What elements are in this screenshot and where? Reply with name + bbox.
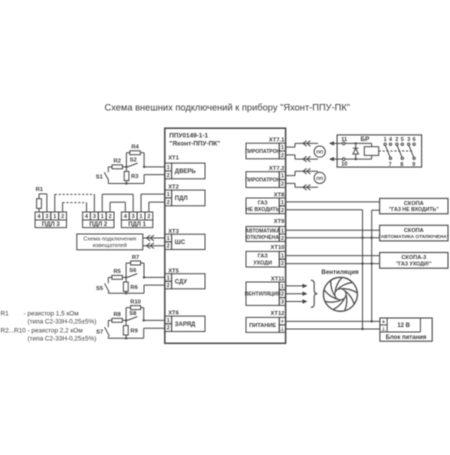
- svg-text:1: 1: [101, 214, 104, 220]
- detector PDL3 ПДЛ 3: [35, 212, 66, 228]
- wire XT3 pin2 connector: [143, 243, 165, 249]
- wire PDL3 cell1 to PDL2 cell3 (dashed): [55, 194, 95, 212]
- svg-text:1: 1: [281, 145, 284, 151]
- resistor R1: [36, 187, 44, 208]
- junction node net-XT5-c: [125, 292, 127, 294]
- svg-text:УХОДИ: УХОДИ: [253, 261, 272, 267]
- svg-text:R5: R5: [113, 269, 121, 275]
- switch S1: [96, 172, 109, 180]
- svg-text:"ГАЗ НЕ ВХОДИТЬ": "ГАЗ НЕ ВХОДИТЬ": [389, 207, 439, 213]
- svg-text:XT12: XT12: [271, 311, 285, 317]
- brace ventilation group: [311, 280, 318, 307]
- svg-text:Схема внешних подключений к пр: Схема внешних подключений к прибору "Яхо…: [105, 102, 351, 112]
- svg-text:XT7.2: XT7.2: [269, 166, 284, 172]
- svg-text:S5: S5: [96, 286, 104, 292]
- svg-text:5: 5: [401, 137, 404, 143]
- relay contact K1.2: [395, 137, 403, 168]
- wire PP1 line2: [286, 155, 318, 162]
- wire PDL2 cell1 to PDL1 cell3: [102, 194, 133, 212]
- svg-text:2: 2: [281, 182, 284, 188]
- wire PDL1 cell1 to XT2 pin1: [141, 194, 165, 212]
- junction node diode-top: [355, 142, 357, 144]
- svg-text:(типа С2-33Н-0,25±5%): (типа С2-33Н-0,25±5%): [28, 335, 97, 342]
- junction node net-XT6-b: [143, 319, 145, 321]
- terminal XT12 ПИТАНИЕ: [246, 311, 286, 333]
- svg-text:2: 2: [167, 244, 170, 250]
- junction node diode-bottom: [355, 158, 357, 160]
- resistor R7: [131, 255, 141, 265]
- svg-text:6: 6: [413, 137, 416, 143]
- wire XT12 minus to PSU: [286, 328, 380, 330]
- squib PP2 ПП: [314, 172, 325, 183]
- svg-text:ПИРОПАТРОН: ПИРОПАТРОН: [245, 178, 281, 184]
- svg-text:R8: R8: [113, 312, 121, 318]
- switch S2: [128, 158, 138, 167]
- terminal XT8 ГАЗ НЕ ВХОДИТЬ: [246, 192, 286, 213]
- svg-text:ОТКЛЮЧЕНА: ОТКЛЮЧЕНА: [246, 235, 279, 241]
- switch S7: [96, 327, 109, 336]
- svg-text:1: 1: [281, 253, 284, 259]
- resistor R5: [112, 269, 123, 279]
- svg-text:S7: S7: [96, 330, 103, 336]
- terminal XT7.2 ПИРОПАТРОН: [245, 166, 286, 188]
- wire XT3 pin1 connector: [143, 235, 165, 241]
- svg-text:R2...R10 - резистор 2,2 кОм: R2...R10 - резистор 2,2 кОм: [1, 328, 83, 335]
- svg-text:1: 1: [167, 275, 170, 281]
- terminal XT7.1 ПИРОПАТРОН: [245, 137, 286, 159]
- svg-text:3: 3: [407, 137, 410, 143]
- wire XT8.2 to bus A: [286, 210, 363, 329]
- wire PP2 line1: [286, 168, 318, 175]
- svg-text:1: 1: [281, 284, 284, 290]
- switch S5: [96, 283, 109, 292]
- svg-text:1: 1: [167, 236, 170, 242]
- detector PDL1 ПДЛ 1: [121, 212, 152, 228]
- svg-text:СКОПА-3: СКОПА-3: [401, 255, 426, 261]
- wire bus B: [372, 210, 380, 321]
- terminal XT2 ПДЛ: [165, 185, 205, 206]
- junction node net-XT6-a: [125, 319, 127, 321]
- wire PP1 line1: [286, 141, 318, 148]
- svg-text:1: 1: [167, 318, 170, 324]
- junction node net-XT6-c: [125, 337, 127, 339]
- relay block БР: [337, 135, 422, 167]
- svg-text:ВЕНТИЛЯЦИЯ: ВЕНТИЛЯЦИЯ: [245, 292, 281, 298]
- svg-text:ДВЕРЬ: ДВЕРЬ: [175, 169, 197, 175]
- wire PDL3 cell2 to PDL2 cell4 (dashed): [63, 203, 87, 212]
- svg-text:XT7.1: XT7.1: [269, 137, 285, 143]
- wire BR top rail: [337, 143, 372, 146]
- svg-text:"Яхонт-ППУ-ПК": "Яхонт-ППУ-ПК": [169, 140, 220, 147]
- resistor R4: [130, 145, 141, 155]
- svg-text:10: 10: [341, 162, 347, 168]
- svg-text:ПП: ПП: [316, 176, 323, 181]
- svg-text:9: 9: [412, 162, 415, 168]
- svg-text:R1: R1: [1, 311, 10, 318]
- svg-text:2: 2: [167, 326, 170, 332]
- junction node busA-XT9: [361, 237, 363, 239]
- svg-text:ГАЗ: ГАЗ: [258, 254, 269, 260]
- svg-text:3: 3: [281, 300, 284, 306]
- resistor R9: [123, 326, 138, 335]
- svg-text:ПП: ПП: [316, 150, 323, 155]
- svg-text:ШС: ШС: [175, 240, 186, 246]
- svg-text:2: 2: [109, 214, 112, 220]
- svg-text:2: 2: [147, 214, 150, 220]
- terminal XT6 ЗАРЯД: [165, 310, 205, 331]
- svg-text:"АВТОМАТИКА ОТКЛЮЧЕНА": "АВТОМАТИКА ОТКЛЮЧЕНА": [379, 234, 450, 240]
- svg-text:2: 2: [281, 261, 284, 267]
- svg-text:R2: R2: [114, 159, 121, 165]
- wire PDL1 cell2 to XT2 pin2: [149, 202, 165, 212]
- junction node net-XT5-a: [125, 276, 127, 278]
- svg-text:БР: БР: [361, 136, 371, 143]
- svg-text:+: +: [281, 319, 284, 325]
- svg-text:2: 2: [395, 137, 398, 143]
- svg-text:R10: R10: [130, 299, 141, 305]
- terminal XT11 ВЕНТИЛЯЦИЯ: [245, 276, 286, 305]
- svg-text:4: 4: [85, 214, 88, 220]
- svg-text:XT8: XT8: [274, 192, 285, 198]
- svg-text:1: 1: [167, 192, 170, 198]
- junction node net-XT5-b: [143, 276, 145, 278]
- svg-text:1: 1: [281, 228, 284, 234]
- wire XT9.1 to HL2: [286, 229, 380, 231]
- svg-text:4: 4: [124, 214, 127, 220]
- wire XT10.2 to HL3: [286, 263, 380, 265]
- svg-text:1: 1: [281, 200, 284, 206]
- wire BR pin11 external arrow: [329, 141, 337, 145]
- wire XT12 plus to PSU: [286, 320, 380, 322]
- pin 10: [341, 158, 347, 168]
- svg-text:XT1: XT1: [168, 156, 179, 162]
- junction node busA-minus: [361, 328, 363, 330]
- svg-text:R6: R6: [130, 285, 138, 291]
- svg-text:1: 1: [384, 137, 387, 143]
- wire net-XT1 network rails: [108, 153, 165, 184]
- squib PP1 ПП: [314, 146, 325, 157]
- pin 11: [341, 137, 347, 145]
- svg-text:(типа С2-33Н-0,25±5%): (типа С2-33Н-0,25±5%): [28, 318, 97, 325]
- relay coil K1: [364, 147, 378, 156]
- resistor R8: [112, 312, 123, 322]
- svg-text:XT10: XT10: [271, 245, 285, 251]
- svg-text:2: 2: [61, 214, 64, 220]
- annunciator HL2 СКОПА "АВТОМАТИКА ОТКЛЮЧЕНА": [379, 225, 450, 241]
- svg-text:1: 1: [167, 165, 170, 171]
- wire BR bottom rail: [337, 155, 372, 159]
- svg-text:8: 8: [400, 162, 403, 168]
- svg-text:извещателей: извещателей: [93, 242, 127, 249]
- wire XT9.2 to HL2: [286, 237, 380, 239]
- wire BR pin10 external arrow: [329, 157, 337, 161]
- svg-text:ГАЗ: ГАЗ: [258, 200, 268, 206]
- svg-text:R7: R7: [132, 255, 139, 261]
- resistor R10: [130, 299, 141, 309]
- svg-text:XT11: XT11: [271, 276, 285, 282]
- svg-text:⊥: ⊥: [280, 327, 285, 333]
- svg-text:СКОПА: СКОПА: [404, 201, 424, 207]
- junction node busA-XT10: [361, 262, 363, 264]
- svg-text:2: 2: [281, 153, 284, 159]
- svg-text:12 В: 12 В: [397, 323, 410, 329]
- wire relay actuation (dashed): [379, 150, 414, 152]
- wire XT8.1 to HL1: [286, 201, 380, 203]
- relay contact K1.3: [407, 137, 415, 168]
- svg-text:Схема подключения: Схема подключения: [83, 237, 136, 243]
- svg-text:7: 7: [389, 162, 392, 168]
- wire XT11 arrows: [286, 284, 308, 304]
- svg-text:"ГАЗ УХОДИ!": "ГАЗ УХОДИ!": [396, 261, 432, 267]
- svg-text:2: 2: [167, 173, 170, 179]
- svg-text:XT6: XT6: [168, 310, 179, 316]
- svg-text:3: 3: [132, 214, 135, 220]
- detector PDL2 ПДЛ 2: [83, 212, 114, 228]
- device block U1 ППУ0149-1-1 "Яхонт-ППУ-ПК": [165, 128, 286, 343]
- wire R1 loop: [39, 194, 47, 212]
- svg-text:СКОПА: СКОПА: [404, 228, 424, 234]
- svg-text:Вентиляция: Вентиляция: [321, 269, 359, 276]
- svg-text:R4: R4: [131, 145, 139, 151]
- note resistor values: [1, 311, 97, 343]
- svg-text:R9: R9: [130, 329, 138, 335]
- svg-text:R1: R1: [36, 187, 44, 193]
- junction node busB-plus: [371, 320, 373, 322]
- resistor R3: [124, 171, 139, 180]
- svg-text:ЗАРЯД: ЗАРЯД: [175, 322, 196, 328]
- wire net-XT6 network rails: [108, 308, 165, 339]
- terminal XT3 ШС: [165, 229, 205, 249]
- svg-text:- резистор 1,5 кОм: - резистор 1,5 кОм: [24, 311, 79, 318]
- svg-text:СДУ: СДУ: [175, 279, 188, 285]
- svg-text:ПДЛ 1: ПДЛ 1: [128, 222, 146, 228]
- wire PP2 line2: [286, 183, 318, 190]
- svg-text:2: 2: [281, 208, 284, 214]
- resistor R2: [112, 159, 123, 169]
- diode VD1: [353, 143, 359, 159]
- svg-text:S2: S2: [130, 158, 137, 164]
- fan M1: [323, 277, 357, 311]
- junction node busB-XT9: [371, 237, 373, 239]
- svg-text:⊥: ⊥: [381, 327, 386, 333]
- svg-text:3: 3: [45, 214, 48, 220]
- wire PDL2 cell2 to PDL1 cell4: [110, 202, 125, 212]
- junction node net-XT1-c: [125, 182, 127, 184]
- terminal XT5 СДУ: [165, 269, 205, 289]
- junction node net-XT1-b: [143, 166, 145, 168]
- svg-text:2: 2: [281, 236, 284, 242]
- resistor R6: [123, 282, 138, 291]
- svg-text:R3: R3: [131, 174, 139, 180]
- svg-text:1: 1: [140, 214, 143, 220]
- svg-text:2: 2: [281, 292, 284, 298]
- switch S6: [127, 268, 137, 277]
- svg-text:S1: S1: [96, 174, 104, 180]
- wire net-XT5 network rails: [108, 263, 165, 293]
- svg-text:ПДЛ: ПДЛ: [175, 196, 188, 202]
- svg-text:ПИРОПАТРОН: ПИРОПАТРОН: [245, 149, 281, 155]
- wire XT10.1 to HL3: [286, 255, 380, 257]
- svg-text:1: 1: [53, 214, 56, 220]
- junction node busB-XT10: [371, 262, 373, 264]
- svg-text:XT9: XT9: [274, 219, 285, 225]
- relay contact K1.1: [384, 137, 392, 168]
- svg-text:ППУ0149-1-1: ППУ0149-1-1: [169, 133, 208, 140]
- terminal XT10 ГАЗ УХОДИ: [246, 245, 286, 267]
- svg-text:1: 1: [281, 174, 284, 180]
- junction node net-XT1-a: [125, 166, 127, 168]
- svg-text:ПИТАНИЕ: ПИТАНИЕ: [249, 323, 276, 329]
- annunciator HL1 СКОПА "ГАЗ НЕ ВХОДИТЬ": [380, 198, 448, 213]
- svg-text:АВТОМАТИКА: АВТОМАТИКА: [245, 229, 280, 235]
- svg-text:НЕ ВХОДИТЬ: НЕ ВХОДИТЬ: [246, 207, 280, 213]
- switch S8: [127, 311, 137, 320]
- svg-text:Блок питания: Блок питания: [386, 335, 427, 341]
- svg-text:S8: S8: [129, 311, 137, 317]
- svg-text:2: 2: [167, 200, 170, 206]
- svg-text:3: 3: [93, 214, 96, 220]
- terminal XT9 АВТОМАТИКА ОТКЛЮЧЕНА: [245, 219, 285, 242]
- svg-text:2: 2: [167, 283, 170, 289]
- block detector-connection scheme: [77, 234, 143, 250]
- annunciator HL3 СКОПА-3 "ГАЗ УХОДИ!": [380, 253, 448, 269]
- terminal XT1 ДВЕРЬ: [165, 156, 205, 179]
- svg-text:S6: S6: [129, 268, 137, 274]
- svg-text:4: 4: [38, 214, 41, 220]
- svg-text:ПДЛ 3: ПДЛ 3: [42, 222, 60, 228]
- power supply block 12V: [380, 318, 432, 341]
- svg-text:ПДЛ 2: ПДЛ 2: [89, 222, 107, 228]
- svg-text:4: 4: [389, 137, 392, 143]
